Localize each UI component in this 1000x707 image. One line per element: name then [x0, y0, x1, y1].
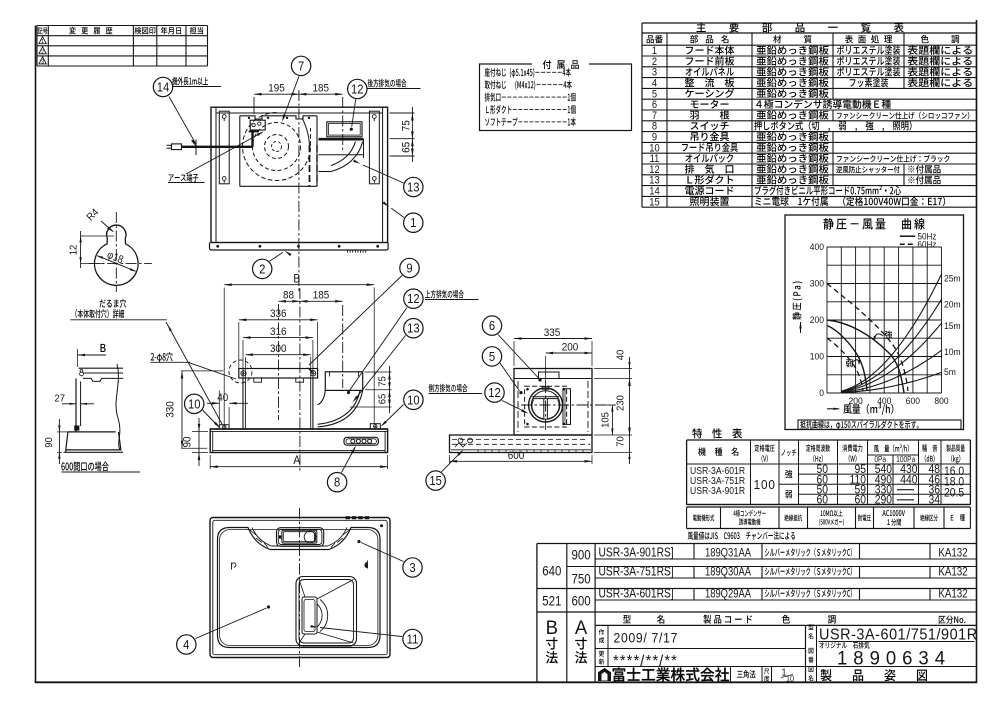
svg-text:15: 15	[649, 197, 660, 209]
svg-text:800: 800	[934, 395, 948, 406]
svg-text:12: 12	[407, 292, 420, 307]
svg-text:3: 3	[409, 560, 416, 575]
svg-text:90: 90	[182, 436, 194, 447]
svg-text:10: 10	[188, 397, 201, 412]
svg-text:88: 88	[283, 290, 294, 302]
svg-text:1: 1	[41, 39, 44, 45]
svg-text:200: 200	[810, 315, 824, 326]
svg-text:KA132: KA132	[938, 588, 967, 601]
svg-text:330: 330	[165, 401, 177, 418]
svg-text:60: 60	[816, 494, 828, 507]
svg-text:5: 5	[489, 349, 496, 364]
svg-text:13: 13	[407, 180, 420, 195]
svg-text:100: 100	[810, 351, 824, 362]
svg-text:A: A	[575, 618, 588, 640]
svg-text:185: 185	[313, 290, 330, 302]
svg-text:USR-3A-751R: USR-3A-751R	[690, 475, 745, 486]
svg-text:335: 335	[544, 328, 561, 340]
svg-text:20.5: 20.5	[944, 487, 964, 500]
svg-text:290: 290	[875, 494, 892, 507]
svg-text:600: 600	[508, 450, 525, 462]
svg-text:60: 60	[854, 494, 866, 507]
svg-text:90: 90	[44, 437, 56, 448]
svg-text:100Pa: 100Pa	[896, 454, 916, 464]
svg-text:521: 521	[542, 593, 561, 608]
svg-text:20m: 20m	[944, 299, 961, 310]
svg-text:2: 2	[259, 262, 265, 277]
svg-text:2: 2	[41, 49, 44, 55]
svg-text:7: 7	[298, 59, 304, 74]
svg-text:11: 11	[407, 632, 419, 647]
svg-text:0: 0	[819, 388, 824, 399]
svg-text:189Q31AA: 189Q31AA	[705, 546, 751, 559]
svg-text:KA132: KA132	[938, 566, 967, 579]
svg-text:900: 900	[571, 548, 590, 563]
svg-text:40: 40	[615, 349, 627, 360]
svg-text:5m: 5m	[944, 367, 956, 378]
svg-text:USR-3A-901R: USR-3A-901R	[690, 486, 745, 497]
svg-text:0Pa: 0Pa	[874, 454, 887, 464]
svg-text:336: 336	[270, 309, 287, 321]
svg-text:14: 14	[157, 80, 170, 95]
svg-text:10: 10	[407, 393, 420, 408]
svg-text:200: 200	[562, 342, 579, 354]
svg-text:189Q29AA: 189Q29AA	[705, 587, 751, 600]
svg-text:15m: 15m	[944, 321, 961, 332]
svg-text:B: B	[546, 618, 558, 640]
svg-text:40: 40	[217, 392, 228, 404]
svg-text:12: 12	[488, 386, 501, 401]
svg-text:12: 12	[68, 244, 80, 255]
svg-text:27: 27	[55, 393, 66, 405]
svg-text:USR-3A-901RS]: USR-3A-901RS]	[599, 546, 674, 559]
svg-text:400: 400	[877, 395, 891, 406]
svg-text:USR-3A-601R: USR-3A-601R	[690, 465, 745, 476]
svg-text:600: 600	[906, 395, 920, 406]
svg-text:KA132: KA132	[938, 547, 967, 560]
svg-text:6: 6	[489, 319, 496, 334]
svg-text:316: 316	[270, 326, 287, 338]
svg-text:4: 4	[183, 637, 190, 652]
svg-text:300: 300	[270, 343, 287, 355]
svg-text:USR-3A-751RS]: USR-3A-751RS]	[599, 565, 674, 578]
svg-text:195: 195	[268, 83, 285, 95]
svg-text:15: 15	[429, 474, 442, 489]
svg-text:10: 10	[786, 674, 794, 683]
svg-text:B: B	[293, 273, 300, 286]
svg-text:300: 300	[810, 278, 824, 289]
svg-text:185: 185	[313, 83, 330, 95]
svg-text:****/**/**: ****/**/**	[613, 652, 678, 670]
svg-text:A: A	[293, 455, 301, 468]
svg-text:70: 70	[615, 436, 627, 447]
svg-text:440: 440	[900, 474, 917, 487]
svg-text:25m: 25m	[944, 273, 961, 284]
svg-text:65: 65	[377, 393, 389, 404]
svg-text:75: 75	[377, 376, 389, 387]
svg-text:400: 400	[810, 242, 824, 253]
svg-text:12: 12	[351, 82, 364, 97]
svg-text:75: 75	[401, 120, 413, 131]
svg-text:65: 65	[401, 142, 413, 153]
svg-text:10m: 10m	[944, 347, 961, 358]
svg-text:2009/ 7/17: 2009/ 7/17	[614, 630, 679, 646]
svg-text:34: 34	[928, 494, 940, 507]
svg-text:640: 640	[542, 563, 561, 578]
svg-text:1: 1	[410, 216, 417, 231]
svg-text:750: 750	[571, 571, 590, 586]
svg-text:105: 105	[600, 412, 612, 428]
svg-text:13: 13	[407, 321, 420, 336]
svg-text:189Q30AA: 189Q30AA	[705, 565, 751, 578]
svg-text:230: 230	[615, 395, 627, 411]
svg-text:USR-3A-601RS]: USR-3A-601RS]	[599, 587, 674, 600]
svg-text:100: 100	[754, 477, 776, 492]
svg-text:8: 8	[334, 475, 341, 490]
svg-text:1890634: 1890634	[837, 648, 951, 670]
svg-text:600: 600	[571, 593, 590, 608]
svg-text:3: 3	[41, 59, 44, 65]
svg-text:9: 9	[406, 261, 413, 276]
